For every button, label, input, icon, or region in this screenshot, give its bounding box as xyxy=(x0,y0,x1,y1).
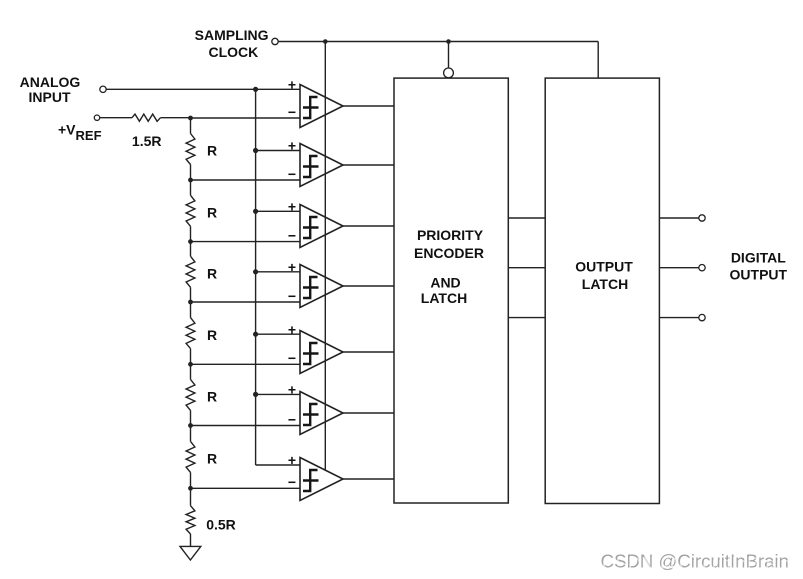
junction ladder tap 5 xyxy=(188,362,193,367)
hysteresis symbol U1 xyxy=(303,97,319,118)
wire ladder tap 4 to comparator 4 - input xyxy=(191,301,301,303)
hysteresis symbol U3 xyxy=(303,217,319,238)
wire ladder tap 3 to comparator 3 - input xyxy=(191,241,301,243)
comparator U5 xyxy=(300,331,343,374)
svg-text:1.5R: 1.5R xyxy=(132,133,162,149)
svg-text:−: − xyxy=(288,166,296,182)
junction analog bus tap 5 xyxy=(253,332,258,337)
wire digital output bit 2 xyxy=(659,317,698,319)
wire encoder to latch bit 1 xyxy=(508,267,545,269)
junction ladder tap 6 xyxy=(188,423,193,428)
resistor R3 xyxy=(186,256,195,287)
wire analog bus to comparator 4 + input xyxy=(256,271,300,273)
wire ladder segment below R2 xyxy=(190,226,192,241)
resistor R6 xyxy=(186,441,195,472)
svg-text:CSDN @CircuitInBrain: CSDN @CircuitInBrain xyxy=(602,553,790,574)
wire ladder segment above R2 xyxy=(190,180,192,195)
junction clock to comparator rail xyxy=(323,39,328,44)
terminal digital output bit 2 xyxy=(699,314,705,320)
junction analog bus tap 1 xyxy=(253,87,258,92)
wire encoder to latch bit 0 xyxy=(508,217,545,219)
svg-text:−: − xyxy=(288,411,296,427)
junction ladder tap 2 xyxy=(188,178,193,183)
junction ladder tap 7 xyxy=(188,486,193,491)
hysteresis symbol U2 xyxy=(303,156,319,177)
output latch block U9 xyxy=(545,78,659,503)
svg-text:AND: AND xyxy=(430,275,460,291)
hysteresis symbol U4 xyxy=(303,277,319,298)
hysteresis symbol U6 xyxy=(303,404,319,425)
terminal digital output bit 0 xyxy=(699,215,705,221)
comparator U7 xyxy=(300,458,343,501)
svg-text:ANALOG: ANALOG xyxy=(20,74,81,90)
wire clock vertical rail through comparators xyxy=(324,42,326,471)
terminal ANALOG INPUT xyxy=(100,86,106,92)
junction analog bus tap 6 xyxy=(253,392,258,397)
wire comparator 2 output to encoder xyxy=(343,164,394,166)
wire ladder tap 7 to comparator 7 - input xyxy=(191,487,301,489)
junction ladder tap 1 xyxy=(188,116,193,121)
svg-text:−: − xyxy=(288,227,296,243)
junction ladder tap 3 xyxy=(188,239,193,244)
comparator U3 xyxy=(300,205,343,248)
comparator U1 xyxy=(300,85,343,128)
wire analog bus to comparator 5 + input xyxy=(256,333,300,335)
wire encoder to latch bit 2 xyxy=(508,317,545,319)
priority encoder and latch block U8 xyxy=(394,78,508,503)
wire ladder segment below R1 xyxy=(190,165,192,181)
svg-text:R: R xyxy=(207,266,217,282)
wire clock horizontal xyxy=(278,41,598,43)
svg-text:−: − xyxy=(288,474,296,490)
resistor 0.5R xyxy=(186,506,195,534)
wire comparator 4 output to encoder xyxy=(343,285,394,287)
wire comparator 1 output to encoder xyxy=(343,105,394,107)
junction analog bus tap 2 xyxy=(253,148,258,153)
comparator U2 xyxy=(300,144,343,187)
svg-text:0.5R: 0.5R xyxy=(206,516,236,532)
resistor R5 xyxy=(186,379,195,410)
hysteresis symbol U7 xyxy=(303,470,319,491)
wire digital output bit 0 xyxy=(659,217,698,219)
wire ladder tap 5 to comparator 5 - input xyxy=(191,363,301,365)
wire ladder segment above R3 xyxy=(190,242,192,257)
comparator U4 xyxy=(300,265,343,308)
wire comparator 6 output to encoder xyxy=(343,412,394,414)
ground symbol xyxy=(180,546,201,560)
terminal +VREF xyxy=(94,115,99,120)
wire digital output bit 1 xyxy=(659,267,698,269)
wire ladder segment above R1 xyxy=(190,118,192,134)
wire 0.5R to ground xyxy=(190,534,192,546)
junction analog bus tap 3 xyxy=(253,209,258,214)
resistor 1.5R xyxy=(132,114,161,121)
svg-text:CLOCK: CLOCK xyxy=(209,44,259,60)
wire comparator 3 output to encoder xyxy=(343,225,394,227)
svg-text:−: − xyxy=(288,288,296,304)
svg-text:LATCH: LATCH xyxy=(582,276,628,292)
svg-text:+: + xyxy=(288,77,296,93)
wire analog input to comparator 1 + input xyxy=(106,88,300,90)
resistor R4 xyxy=(186,318,195,349)
junction ladder tap 4 xyxy=(188,300,193,305)
wire ladder segment below R4 xyxy=(190,349,192,365)
wire comparator 7 output to encoder xyxy=(343,478,394,480)
wire ladder segment above R5 xyxy=(190,364,192,379)
svg-text:+: + xyxy=(288,199,296,215)
terminal digital output bit 1 xyxy=(699,265,705,271)
wire ladder segment below R6 xyxy=(190,472,192,488)
inverting clock bubble on priority encoder xyxy=(444,68,454,78)
wire analog bus to comparator 6 + input xyxy=(256,393,300,395)
wire ladder segment above R6 xyxy=(190,426,192,442)
comparator U6 xyxy=(300,392,343,435)
wire VREF terminal to 1.5R xyxy=(100,117,132,119)
wire analog bus to comparator 3 + input xyxy=(256,210,300,212)
resistor R2 xyxy=(186,195,195,226)
wire clock drop to output latch xyxy=(597,42,599,79)
svg-text:OUTPUT: OUTPUT xyxy=(575,258,633,274)
wire ladder segment below R3 xyxy=(190,287,192,302)
svg-text:R: R xyxy=(207,143,217,159)
svg-text:R: R xyxy=(207,205,217,221)
svg-text:−: − xyxy=(288,104,296,120)
svg-text:R: R xyxy=(207,389,217,405)
wire ladder segment below R5 xyxy=(190,410,192,425)
wire ladder tap 2 to comparator 2 - input xyxy=(191,179,301,181)
terminal SAMPLING CLOCK input xyxy=(272,38,278,44)
wire analog bus elbow to comparator 7 + input xyxy=(256,464,300,466)
svg-text:R: R xyxy=(207,451,217,467)
wire comparator 5 output to encoder xyxy=(343,351,394,353)
svg-text:INPUT: INPUT xyxy=(29,89,71,105)
svg-text:+: + xyxy=(288,138,296,154)
wire analog input vertical bus xyxy=(255,89,257,465)
svg-text:+: + xyxy=(288,382,296,398)
wire ladder segment above R4 xyxy=(190,302,192,318)
wire 1.5R to ladder top xyxy=(161,117,191,119)
resistor R1 xyxy=(186,134,195,165)
svg-text:PRIORITY: PRIORITY xyxy=(417,227,484,243)
junction clock to priority encoder xyxy=(446,39,451,44)
svg-text:+: + xyxy=(288,452,296,468)
svg-text:DIGITAL: DIGITAL xyxy=(731,249,786,265)
svg-text:R: R xyxy=(207,327,217,343)
svg-text:ENCODER: ENCODER xyxy=(414,245,484,261)
wire analog bus to comparator 2 + input xyxy=(256,150,300,152)
svg-text:LATCH: LATCH xyxy=(421,290,467,306)
wire clock drop to encoder bubble xyxy=(448,42,450,68)
wire ladder tap 6 to comparator 6 - input xyxy=(191,425,301,427)
svg-text:−: − xyxy=(288,350,296,366)
svg-text:SAMPLING: SAMPLING xyxy=(195,27,269,43)
wire ladder bottom to 0.5R xyxy=(190,488,192,505)
svg-text:+: + xyxy=(288,259,296,275)
junction analog bus tap 4 xyxy=(253,269,258,274)
svg-text:+: + xyxy=(288,321,296,337)
svg-text:OUTPUT: OUTPUT xyxy=(730,267,788,283)
wire ladder tap 1 to comparator 1 - input xyxy=(191,117,301,119)
hysteresis symbol U5 xyxy=(303,343,319,364)
